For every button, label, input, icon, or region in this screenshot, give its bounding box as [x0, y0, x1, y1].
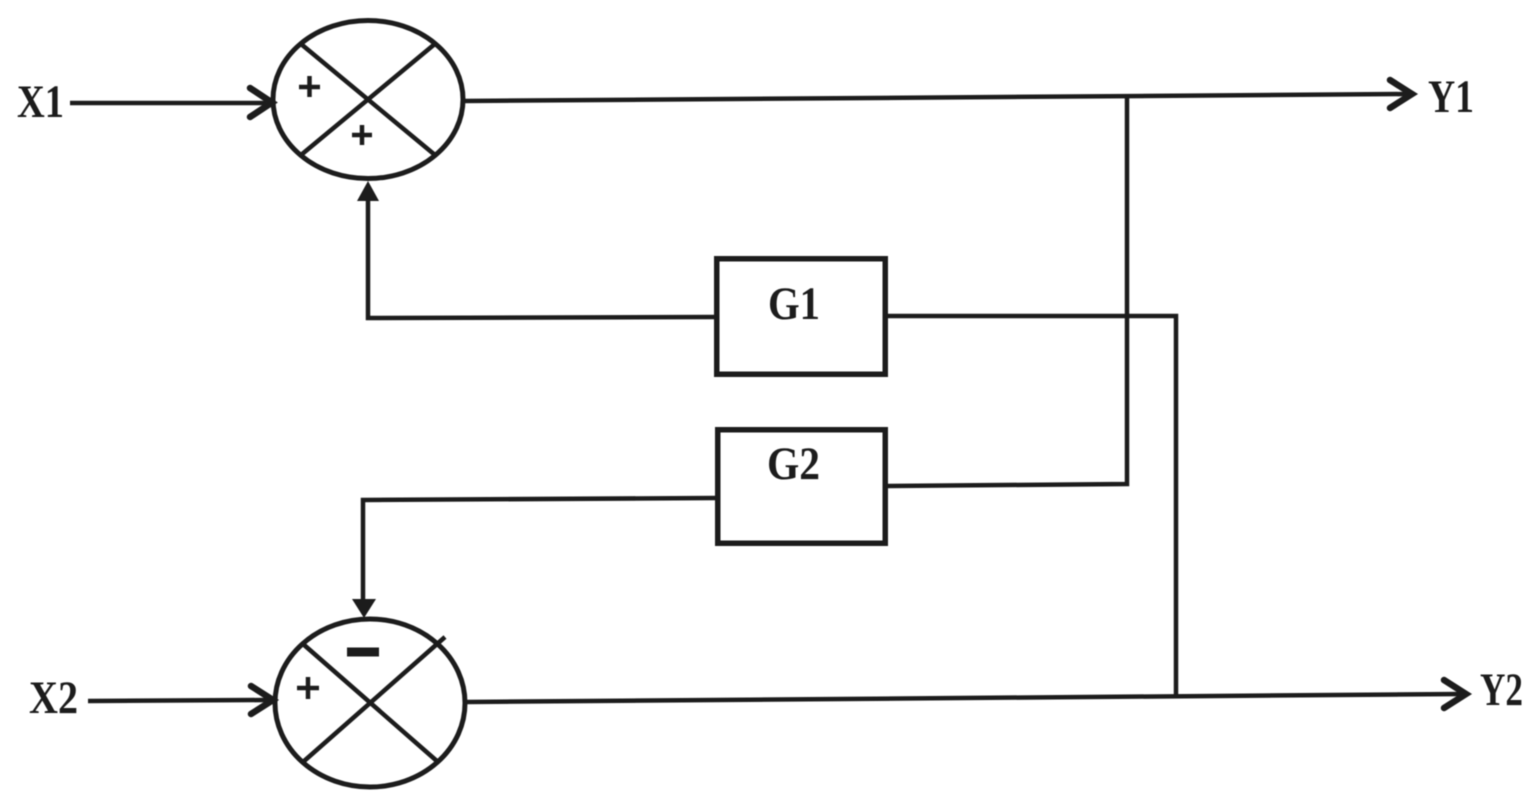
svg-text:X1: X1	[17, 76, 64, 128]
svg-text:G2: G2	[767, 438, 820, 490]
svg-text:Y1: Y1	[1428, 71, 1474, 123]
svg-text:Y2: Y2	[1480, 664, 1523, 716]
svg-text:X2: X2	[29, 672, 78, 724]
svg-text:G1: G1	[768, 278, 820, 330]
